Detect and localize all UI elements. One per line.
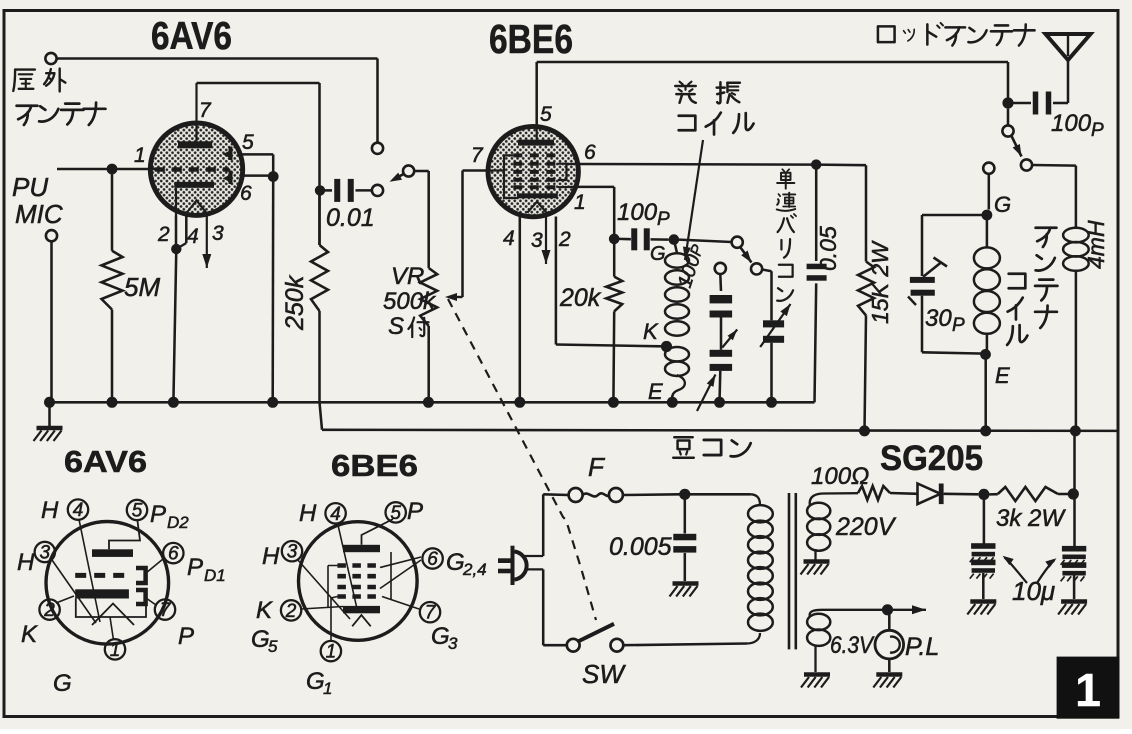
svg-text:E: E	[995, 363, 1010, 388]
svg-text:5: 5	[268, 637, 278, 656]
svg-text:4: 4	[330, 504, 341, 525]
svg-text:0.05: 0.05	[815, 226, 841, 271]
svg-text:0.005: 0.005	[609, 533, 672, 561]
svg-text:H: H	[262, 543, 280, 570]
svg-text:G: G	[431, 623, 450, 650]
svg-text:7: 7	[425, 603, 437, 624]
svg-text:H: H	[299, 500, 317, 527]
svg-text:10μ: 10μ	[1012, 576, 1055, 606]
svg-text:1: 1	[326, 642, 337, 663]
svg-text:220V: 220V	[835, 513, 897, 541]
svg-text:P: P	[657, 209, 670, 230]
svg-text:P: P	[1091, 120, 1104, 141]
svg-text:1: 1	[1075, 664, 1101, 716]
svg-text:2: 2	[157, 223, 170, 246]
svg-text:H: H	[17, 549, 35, 576]
svg-text:6: 6	[240, 182, 252, 205]
svg-text:G: G	[306, 668, 325, 695]
svg-text:D1: D1	[204, 566, 226, 585]
svg-text:2: 2	[558, 228, 571, 251]
svg-text:4mH: 4mH	[1083, 220, 1109, 269]
svg-text:6AV6: 6AV6	[151, 15, 232, 58]
svg-text:SG205: SG205	[880, 439, 983, 478]
svg-text:P: P	[952, 315, 965, 336]
svg-text:2,4: 2,4	[462, 560, 487, 579]
svg-text:3: 3	[212, 222, 224, 245]
svg-text:VR: VR	[391, 263, 424, 290]
svg-text:1: 1	[110, 640, 121, 661]
svg-text:3k 2W: 3k 2W	[996, 505, 1066, 532]
svg-text:20k: 20k	[559, 284, 602, 312]
svg-text:5: 5	[242, 131, 254, 154]
svg-text:5M: 5M	[124, 272, 160, 302]
svg-text:P: P	[178, 623, 194, 650]
svg-text:4: 4	[73, 500, 84, 521]
svg-text:3: 3	[531, 229, 543, 252]
svg-text:30: 30	[925, 305, 952, 332]
svg-text:7: 7	[160, 600, 172, 621]
svg-text:250k: 250k	[281, 274, 309, 331]
svg-text:K: K	[643, 319, 659, 344]
svg-text:G: G	[251, 626, 270, 653]
svg-text:6AV6: 6AV6	[64, 444, 147, 479]
svg-text:MIC: MIC	[15, 199, 63, 229]
svg-text:3: 3	[287, 542, 298, 563]
svg-text:6: 6	[427, 549, 438, 570]
svg-text:2: 2	[43, 600, 55, 621]
svg-text:6: 6	[168, 544, 179, 565]
svg-text:15K 2W: 15K 2W	[867, 240, 893, 324]
svg-text:K: K	[21, 621, 38, 648]
svg-text:1: 1	[574, 191, 586, 214]
svg-text:G: G	[53, 670, 72, 697]
svg-text:S: S	[388, 313, 404, 340]
svg-text:G: G	[994, 192, 1011, 217]
svg-text:100Ω: 100Ω	[811, 463, 869, 490]
svg-text:4: 4	[187, 225, 199, 248]
svg-text:500k: 500k	[383, 288, 437, 315]
svg-text:P: P	[150, 501, 166, 528]
svg-text:100: 100	[1051, 110, 1092, 137]
svg-text:2: 2	[285, 601, 297, 622]
svg-text:3: 3	[40, 543, 51, 564]
svg-text:H: H	[41, 497, 59, 524]
svg-text:7: 7	[199, 99, 212, 122]
svg-text:P.L: P.L	[905, 633, 939, 661]
svg-text:PU: PU	[12, 172, 48, 202]
svg-text:5: 5	[132, 501, 143, 522]
svg-text:F: F	[588, 452, 606, 482]
svg-text:6: 6	[584, 141, 596, 164]
svg-text:P: P	[407, 498, 423, 525]
svg-text:G: G	[650, 243, 666, 265]
svg-text:5: 5	[540, 103, 552, 126]
svg-text:3: 3	[448, 634, 458, 653]
svg-text:7: 7	[471, 144, 484, 167]
svg-text:P: P	[187, 554, 203, 581]
svg-text:E: E	[648, 379, 663, 404]
svg-text:G: G	[446, 549, 465, 576]
svg-text:1: 1	[323, 679, 332, 698]
svg-text:6.3V: 6.3V	[830, 632, 875, 659]
svg-text:100: 100	[617, 199, 658, 226]
svg-text:K: K	[256, 597, 273, 624]
svg-text:6BE6: 6BE6	[489, 16, 573, 62]
svg-text:SW: SW	[582, 659, 626, 689]
svg-text:6BE6: 6BE6	[331, 448, 418, 483]
svg-text:4: 4	[503, 227, 515, 250]
svg-text:D2: D2	[167, 513, 189, 532]
svg-text:0.01: 0.01	[326, 204, 375, 232]
svg-text:5: 5	[390, 503, 401, 524]
svg-text:1: 1	[134, 144, 146, 167]
